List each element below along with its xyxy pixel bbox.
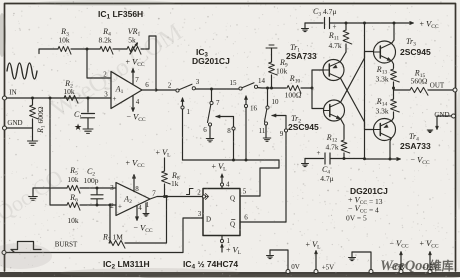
pin 1 clear to +VL [221, 236, 223, 240]
ground at A2 pin1 [145, 203, 147, 213]
wire feedback down to output node [155, 36, 157, 91]
svg-text:R11: R11 [328, 31, 339, 42]
wire control rail to +VL [183, 159, 280, 161]
clock pulse symbol at pin 2 [187, 189, 194, 195]
svg-text:+ VL: + VL [305, 239, 321, 251]
svg-text:11: 11 [259, 127, 266, 135]
ground bracket for supply common [351, 252, 353, 257]
svg-text:− VCC: − VCC [126, 112, 145, 124]
wire Q to rail [260, 160, 279, 196]
pin 5 Q output [240, 195, 260, 197]
svg-text:− VCC: − VCC [133, 223, 152, 235]
ground stub left of C4 [304, 159, 306, 164]
svg-text:5: 5 [243, 188, 247, 196]
svg-text:6: 6 [244, 214, 248, 222]
power +Vcc at A1 pin7 [132, 70, 134, 85]
wire -Vcc rail [344, 158, 396, 161]
burst pulse symbol [11, 242, 41, 253]
svg-text:3: 3 [198, 210, 202, 218]
junction IN/R6 branch [49, 97, 52, 100]
transistor Q4 2SA733 [374, 119, 396, 141]
wire Q4 collector to -Vcc rail [390, 138, 392, 159]
wire to 0V terminal [270, 250, 288, 270]
svg-text:Q: Q [230, 221, 235, 229]
wire BURST line [6, 218, 203, 253]
wire cross-couple Q2 collector to Q3 base [341, 52, 374, 103]
svg-text:4: 4 [226, 181, 230, 189]
svg-text:9: 9 [280, 130, 284, 138]
ground under C1 [83, 129, 93, 133]
power +Vcc at A2 pin8 [133, 176, 135, 192]
transistor Q2 2SC945 [324, 100, 345, 121]
control pin 9 [272, 114, 276, 117]
svg-text:0V = 5: 0V = 5 [346, 214, 367, 223]
op-amp A1 [111, 72, 142, 109]
svg-text:2: 2 [168, 82, 172, 90]
wire R11 to Q1 emitter [340, 52, 346, 62]
pin 4 preset to +VL [221, 186, 223, 189]
svg-text:3: 3 [110, 184, 114, 192]
svg-text:8.2k: 8.2k [98, 36, 111, 45]
svg-text:+ VL: + VL [226, 245, 242, 257]
svg-text:OUT: OUT [430, 82, 445, 90]
resistor R4 8.2k [100, 46, 113, 54]
wire S1 out [196, 88, 239, 90]
svg-text:2SA733: 2SA733 [286, 51, 317, 61]
junction feedback/pin2 [86, 48, 89, 51]
svg-text:+ VL: + VL [211, 161, 227, 173]
resistor R15 560 ohm [394, 88, 411, 90]
wire Q3 collector to +Vcc [392, 23, 395, 44]
switch S2 pins 7-6 to ground [211, 89, 213, 102]
svg-text:1k: 1k [171, 179, 179, 188]
wire IN branch down [50, 98, 67, 205]
svg-text:7: 7 [152, 190, 156, 198]
switch S3 pins 10-11 to ground [267, 88, 269, 106]
wire GND to R1 [7, 127, 33, 129]
svg-text:★: ★ [74, 122, 82, 132]
svg-text:4: 4 [138, 204, 142, 212]
svg-text:WeeQoo维库: WeeQoo维库 [380, 258, 454, 274]
wire center vertical [364, 23, 366, 159]
svg-text:7: 7 [216, 99, 220, 107]
node GND terminal [3, 126, 7, 130]
svg-text:10k: 10k [58, 36, 70, 45]
svg-text:15: 15 [230, 79, 238, 87]
svg-text:A2: A2 [123, 195, 132, 205]
control pin 8 [216, 115, 220, 118]
svg-text:C3 4.7μ: C3 4.7μ [313, 7, 336, 18]
svg-text:4.7k: 4.7k [325, 143, 338, 152]
ground under S3 [263, 138, 271, 141]
svg-text:6: 6 [145, 81, 149, 89]
wire VR1 wiper loop [130, 36, 156, 54]
svg-text:4.7μ: 4.7μ [320, 174, 333, 183]
power -Vcc at A2 pin4 [136, 206, 138, 220]
wire A1 pin3 row into triangle [110, 97, 112, 99]
svg-text:8: 8 [135, 185, 139, 193]
svg-text:2SC945: 2SC945 [288, 122, 319, 132]
ground bracket for 0V [269, 250, 271, 255]
svg-text:Q: Q [230, 195, 235, 203]
svg-text:1: 1 [227, 237, 231, 245]
wire Q4 emitter to R14 [392, 118, 394, 121]
svg-text:eeQoo.CO: eeQoo.CO [0, 164, 67, 236]
wire Q3 emitter to R13 [392, 61, 394, 69]
capacitor C1 [82, 98, 95, 128]
resistor R12 4.7k [341, 140, 350, 153]
svg-text:14: 14 [258, 77, 266, 85]
junction IN/R1 [31, 97, 34, 100]
node OUT [428, 89, 453, 91]
svg-text:100Ω: 100Ω [285, 91, 302, 100]
svg-text:R10: R10 [289, 74, 301, 85]
resistor R2 10k [64, 95, 78, 103]
resistor R9 10k [266, 45, 277, 48]
node BURST terminal [2, 251, 6, 255]
resistor R1 600 ohm [32, 98, 34, 140]
wire feedback top rail [39, 49, 58, 54]
svg-text:3.3k: 3.3k [375, 75, 388, 84]
wire R3-R4 [71, 48, 100, 50]
svg-text:6: 6 [203, 126, 207, 134]
wire S4 out to R10 [258, 87, 287, 89]
wire A2 output [150, 197, 203, 200]
svg-text:10k: 10k [276, 67, 288, 76]
ground under R1 [28, 141, 38, 145]
capacitor C4 4.7u [305, 153, 344, 164]
svg-text:560Ω: 560Ω [411, 77, 428, 86]
pin 6 Qbar output [240, 221, 286, 223]
power -Vcc at A1 pin4 [132, 96, 134, 111]
transistor Q1 2SA733 [323, 60, 344, 81]
wire Q2 emitter to R12 [341, 119, 345, 139]
resistor R5 10k [67, 185, 80, 193]
flip-flop U4 74HC74 box [203, 189, 240, 236]
svg-text:4: 4 [136, 98, 140, 106]
ground for R5 input [29, 197, 38, 201]
svg-text:DG201CJ: DG201CJ [192, 56, 230, 66]
pot VR1 5k [113, 48, 127, 50]
wire +Vcc top rail [346, 22, 409, 24]
resistor R7 1M [109, 205, 111, 243]
svg-text:8: 8 [227, 127, 231, 135]
svg-text:1: 1 [187, 108, 191, 116]
svg-text:IC1 LF356H: IC1 LF356H [98, 9, 143, 21]
resistor R10 100 ohm [287, 85, 301, 93]
svg-text:GND: GND [7, 119, 22, 127]
svg-text:4.7k: 4.7k [328, 41, 341, 50]
resistor R13 3.3k [391, 69, 400, 82]
ground under S2 [206, 139, 214, 142]
ground stub left of C3 [304, 23, 306, 28]
svg-text:0V: 0V [291, 263, 300, 271]
svg-text:2SA733: 2SA733 [400, 141, 431, 151]
svg-text:+: + [118, 203, 122, 211]
svg-text:2: 2 [197, 189, 201, 197]
svg-text:+ VCC: + VCC [125, 158, 144, 170]
svg-text:R1 600Ω: R1 600Ω [36, 106, 47, 134]
resistor R11 4.7k [345, 23, 347, 30]
wire cross-couple Q1 collector to Q4 base [341, 78, 374, 129]
resistor R14 3.3k [392, 87, 395, 90]
input sine source symbol [7, 63, 37, 79]
wire feedback to pin2 [87, 49, 111, 78]
svg-text:+: + [317, 149, 321, 157]
svg-text:IN: IN [9, 89, 16, 97]
resistor R3 10k [58, 46, 71, 54]
op-amp A2 LM311 [116, 183, 150, 216]
node IN terminal [3, 96, 7, 100]
transistor Q3 2SC945 [374, 41, 396, 63]
svg-text:10k: 10k [67, 175, 79, 184]
svg-text:+ VL: + VL [155, 147, 171, 159]
resistor R6 10k [67, 202, 80, 210]
svg-text:+5V: +5V [322, 264, 335, 272]
svg-text:2SC945: 2SC945 [400, 47, 431, 57]
capacitor C2 100p [96, 187, 99, 190]
svg-text:7: 7 [135, 76, 139, 84]
svg-text:D: D [206, 216, 211, 224]
wire A1 output [142, 89, 176, 91]
wire IN line [7, 97, 112, 99]
control pin 1 [181, 98, 184, 102]
wire base column Q1/Q2 [312, 70, 324, 109]
svg-text:10: 10 [272, 98, 280, 106]
control pin 16 [244, 96, 247, 100]
svg-text:100p: 100p [84, 176, 99, 185]
